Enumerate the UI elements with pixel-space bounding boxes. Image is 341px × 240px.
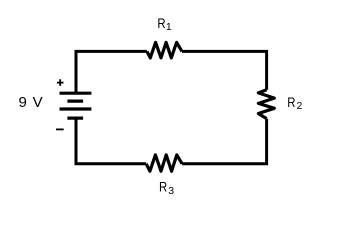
wire top-right corner xyxy=(182,51,267,89)
svg-text:9 V: 9 V xyxy=(19,94,44,111)
svg-text:3: 3 xyxy=(168,185,174,197)
battery B1 plate 3 (long) xyxy=(60,107,92,110)
label R3 xyxy=(159,179,174,198)
label R2 xyxy=(287,94,302,112)
svg-text:R: R xyxy=(159,179,167,195)
battery B1 plate 4 (short, -) xyxy=(67,116,83,119)
label R1 xyxy=(157,15,172,33)
svg-text:1: 1 xyxy=(166,21,172,33)
minus sign xyxy=(56,128,64,130)
resistor R3 xyxy=(146,155,182,171)
wire right-bottom corner xyxy=(182,119,267,164)
svg-text:R: R xyxy=(157,15,165,31)
battery B1 plate 2 (short) xyxy=(67,99,83,102)
wire left-top corner xyxy=(76,51,147,93)
svg-text:2: 2 xyxy=(297,100,303,112)
battery B1 plate 1 (long, +) xyxy=(60,92,92,95)
wire bottom-left corner xyxy=(76,118,146,164)
svg-text:R: R xyxy=(287,94,295,110)
plus sign xyxy=(57,79,64,86)
resistor R1 xyxy=(147,42,182,58)
resistor R2 xyxy=(258,90,274,119)
